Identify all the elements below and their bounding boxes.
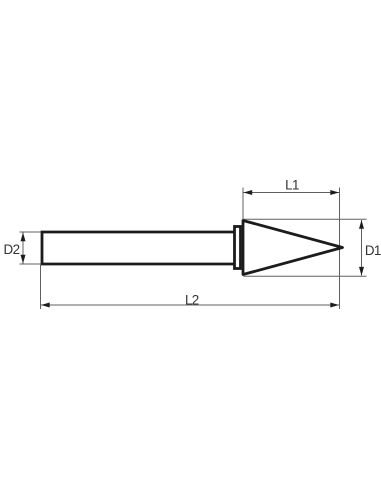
D2 extension line top [20, 231, 42, 233]
D2 dimension line [22, 233, 24, 264]
L1 dimension line [244, 192, 340, 194]
D1 dimension line [361, 220, 363, 276]
L2 extension line left [40, 265, 42, 309]
L2 arrow left [41, 303, 50, 308]
svg-text:D1: D1 [365, 243, 381, 258]
cone (conical burr head) [243, 221, 343, 275]
D1 extension line bottom [244, 275, 367, 277]
L1 extension line left [242, 188, 244, 220]
L1 arrow left [244, 190, 253, 195]
collar (neck step) [235, 227, 241, 269]
shank (cylindrical shaft) [42, 232, 234, 264]
D2 arrow down [21, 255, 26, 264]
D1 arrow down [359, 267, 364, 276]
svg-text:L1: L1 [285, 178, 299, 193]
svg-text:D2: D2 [4, 242, 20, 257]
D2 extension line bottom [20, 263, 42, 265]
L2 arrow right [330, 303, 339, 308]
L1 arrow right [330, 190, 339, 195]
svg-text:L2: L2 [185, 292, 199, 307]
D1 arrow up [359, 220, 364, 229]
D1 extension line top [244, 218, 367, 220]
D2 arrow up [21, 233, 26, 242]
L2 dimension line [41, 304, 339, 306]
L1/L2 extension line right [339, 188, 341, 310]
